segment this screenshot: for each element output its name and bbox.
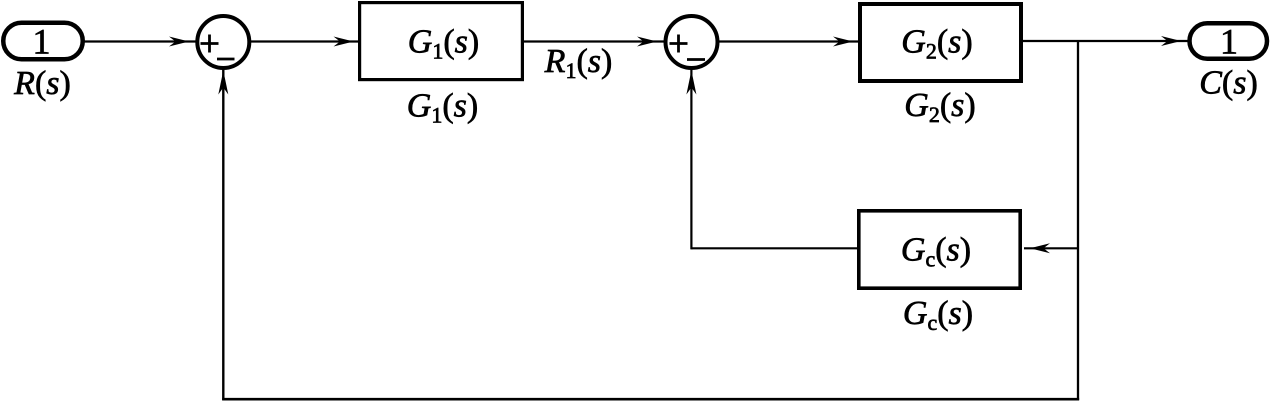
wire G2 to output stadium	[1022, 40, 1188, 42]
svg-text:G2(s): G2(s)	[901, 24, 972, 64]
wire G1 to summing junction S2	[523, 40, 665, 42]
output block OUT1 (stadium "1")	[1190, 21, 1268, 61]
arrowhead into Gc	[1030, 243, 1050, 253]
block G2	[860, 4, 1021, 81]
arrowhead into G1	[334, 37, 354, 47]
wire S1 to block G1	[249, 40, 359, 42]
arrowhead up into S1	[218, 71, 228, 95]
svg-text:R1(s): R1(s)	[544, 43, 613, 83]
summing junction S2	[666, 16, 718, 68]
svg-text:G1(s): G1(s)	[407, 87, 478, 127]
wire outer feedback bottom	[222, 398, 1079, 401]
svg-text:G1(s): G1(s)	[408, 24, 479, 64]
svg-text:Gc(s): Gc(s)	[901, 231, 971, 271]
arrowhead into S2	[637, 37, 657, 47]
block G1	[360, 3, 523, 80]
svg-text:C(s): C(s)	[1199, 65, 1258, 102]
arrowhead into output stadium	[1161, 36, 1181, 46]
arrowhead into G2	[833, 37, 853, 47]
arrowhead up into S2	[686, 71, 696, 95]
block Gc	[859, 211, 1020, 288]
wire inner feedback to Gc	[1024, 247, 1078, 249]
source block IN1 (stadium "1")	[3, 21, 83, 61]
wire input to summing junction S1	[84, 40, 197, 42]
wire up into S2	[690, 70, 692, 250]
svg-text:R(s): R(s)	[13, 65, 71, 102]
svg-text:G2(s): G2(s)	[904, 87, 975, 127]
wire Gc output left	[691, 247, 857, 249]
wire up into S1	[222, 70, 224, 401]
wire tap down from output node	[1077, 41, 1079, 400]
arrowhead into S1	[169, 37, 189, 47]
svg-text:Gc(s): Gc(s)	[903, 295, 973, 335]
svg-text:1: 1	[1220, 21, 1238, 61]
svg-text:1: 1	[33, 21, 51, 61]
summing junction S1	[197, 16, 249, 68]
wire S2 to block G2	[718, 40, 860, 42]
